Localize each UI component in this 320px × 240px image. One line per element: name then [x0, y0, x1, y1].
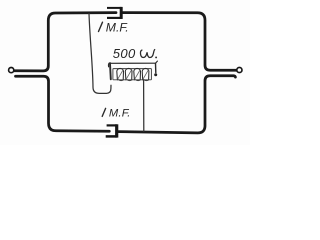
svg-text:M.F.: M.F. [106, 21, 129, 35]
svg-text:M.F.: M.F. [109, 108, 131, 120]
svg-text:500: 500 [113, 46, 136, 61]
